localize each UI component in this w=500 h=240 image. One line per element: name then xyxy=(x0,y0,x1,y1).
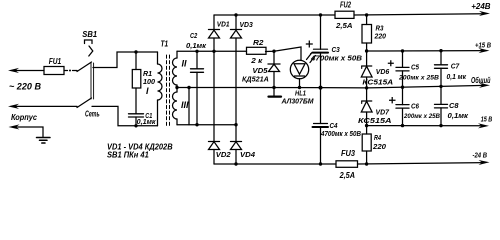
svg-text:C5: C5 xyxy=(411,63,420,72)
svg-text:~ 220 В: ~ 220 В xyxy=(9,82,41,92)
svg-text:FU3: FU3 xyxy=(341,149,355,158)
svg-text:FU1: FU1 xyxy=(49,57,62,66)
svg-text:VD6: VD6 xyxy=(376,67,390,76)
svg-text:4700мк x 50В: 4700мк x 50В xyxy=(310,56,362,63)
svg-text:III: III xyxy=(181,100,189,110)
svg-text:0,1мк: 0,1мк xyxy=(137,119,156,126)
svg-text:220: 220 xyxy=(372,142,387,151)
svg-text:2,5А: 2,5А xyxy=(339,171,356,180)
svg-text:C2: C2 xyxy=(190,31,198,40)
svg-text:200мк x 25В: 200мк x 25В xyxy=(398,75,439,82)
svg-text:АЛ307БМ: АЛ307БМ xyxy=(281,97,315,106)
svg-text:VD7: VD7 xyxy=(376,108,390,117)
svg-text:C3: C3 xyxy=(332,45,341,54)
svg-text:R2: R2 xyxy=(253,38,264,47)
svg-text:C4: C4 xyxy=(330,121,339,130)
svg-text:Общий: Общий xyxy=(471,76,491,85)
svg-text:VD1: VD1 xyxy=(217,20,230,29)
svg-text:КД521А: КД521А xyxy=(242,77,269,84)
svg-text:220: 220 xyxy=(374,32,387,41)
svg-text:C6: C6 xyxy=(411,102,420,111)
svg-text:T1: T1 xyxy=(161,40,169,49)
svg-text:4700мк x 50В: 4700мк x 50В xyxy=(320,131,361,138)
svg-text:SB1: SB1 xyxy=(82,30,97,39)
svg-text:C7: C7 xyxy=(451,61,460,70)
svg-text:+24В: +24В xyxy=(471,1,490,11)
svg-text:0,1мк: 0,1мк xyxy=(186,43,206,50)
svg-text:КС515А: КС515А xyxy=(362,80,393,87)
svg-text:15 В: 15 В xyxy=(481,114,493,123)
svg-text:КС515А: КС515А xyxy=(358,118,392,125)
svg-text:200мк x 25В: 200мк x 25В xyxy=(403,113,440,120)
svg-text:VD4: VD4 xyxy=(240,150,256,159)
svg-text:2 к: 2 к xyxy=(250,56,263,65)
svg-text:Сеть: Сеть xyxy=(85,110,100,119)
svg-text:2,5А: 2,5А xyxy=(335,21,353,30)
svg-text:II: II xyxy=(182,59,188,69)
svg-text:0,1мк: 0,1мк xyxy=(448,113,469,120)
svg-text:-24 В: -24 В xyxy=(473,151,488,160)
svg-text:VD5: VD5 xyxy=(252,66,268,75)
svg-text:SB1 ПКн 41: SB1 ПКн 41 xyxy=(107,151,149,160)
svg-text:100: 100 xyxy=(143,77,156,86)
svg-text:R4: R4 xyxy=(374,133,382,142)
svg-text:VD3: VD3 xyxy=(240,20,254,29)
svg-text:+15 В: +15 В xyxy=(475,40,491,49)
svg-text:C8: C8 xyxy=(449,101,459,110)
svg-text:FU2: FU2 xyxy=(340,1,351,10)
svg-text:0,1 мк: 0,1 мк xyxy=(447,74,467,81)
svg-text:Корпус: Корпус xyxy=(11,112,37,122)
svg-text:VD2: VD2 xyxy=(216,150,232,159)
